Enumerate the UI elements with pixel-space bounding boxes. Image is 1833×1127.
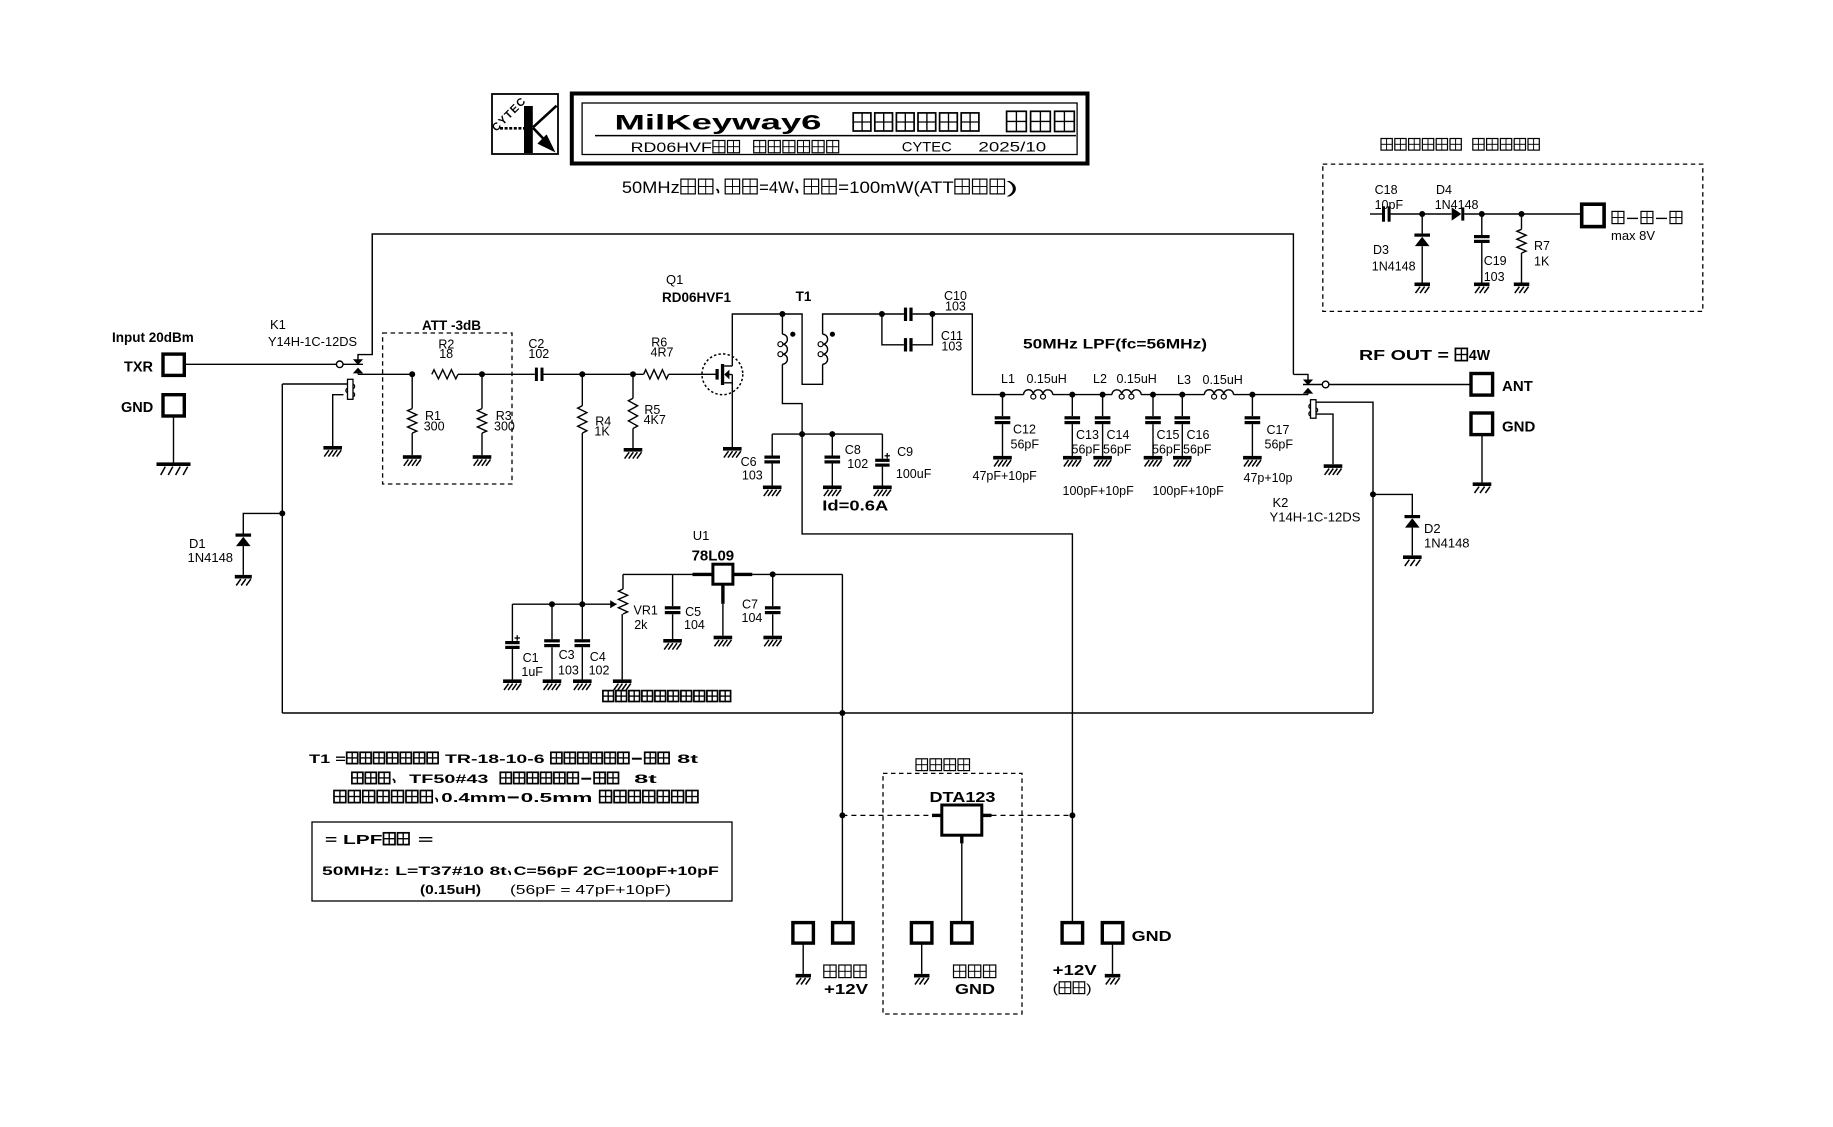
wire R6 to Q1 gate [669,373,716,375]
svg-text:D2: D2 [1424,521,1441,536]
svg-text:K1: K1 [270,317,286,332]
wire U1 ground [722,604,724,636]
note T1 line3 [334,790,698,805]
wire C5 to ground [672,614,674,639]
wire rail to pad2 [841,713,843,923]
pad ANT [1471,374,1493,396]
wire C1 top [511,604,513,641]
potentiometer VR1 [610,589,627,614]
capacitor C5 [665,606,681,614]
capacitor C18 [1382,206,1391,221]
svg-text:C13: C13 [1076,428,1099,442]
svg-text:+12V: +12V [1053,963,1097,979]
node D3 junction [1419,211,1425,217]
svg-text:1uF: 1uF [521,665,543,679]
svg-text:C=56pF 2C=100pF+10pF: C=56pF 2C=100pF+10pF [514,864,720,878]
note T1 line2 [352,772,657,786]
svg-text:2k: 2k [634,618,648,632]
svg-text:GND: GND [1502,419,1536,436]
capacitor C19 [1474,235,1490,243]
svg-text:0.15uH: 0.15uH [1203,373,1243,387]
svg-text:GND: GND [1132,929,1172,945]
node C16 [1179,392,1185,398]
ground C1 [503,679,522,690]
meter pad [1582,204,1604,226]
wire C7 top [772,574,774,606]
capacitor C8 [825,456,841,464]
svg-text:300: 300 [424,420,445,434]
svg-text:max 8V: max 8V [1611,228,1655,243]
svg-text:TF50#43: TF50#43 [398,772,499,786]
capacitor C11 [904,338,913,351]
wire DTA collector dashed [992,814,1073,816]
svg-text:=100mW(ATT: =100mW(ATT [838,179,954,197]
wire K2 coil to rail [1372,494,1374,713]
wire C9 to ground [881,467,883,486]
label gaibu zousetsu [916,759,970,771]
inductor L1 [1024,390,1053,399]
diode D4 [1452,207,1465,220]
wire decoupling bus [772,433,882,435]
node bus T1 [799,431,805,437]
ground K1 coil [323,446,342,457]
svg-text:56pF: 56pF [1103,442,1132,456]
IC U1 78L09 [693,564,753,604]
svg-text:C7: C7 [742,598,758,612]
svg-text:=4W: =4W [759,179,794,197]
wire R2 to R3 node [458,373,535,375]
node C17 [1249,392,1255,398]
svg-text:C6: C6 [741,455,757,469]
svg-text:100pF+10pF: 100pF+10pF [1153,484,1225,498]
wire R1 to ground [411,433,413,455]
svg-text:L3: L3 [1177,373,1191,387]
wire C11 branch left [882,314,904,345]
wire C12 to L1 [1003,394,1024,396]
node C3 top [549,601,555,607]
wire K1 coil pin2 [333,395,344,446]
svg-text:103: 103 [945,300,966,314]
svg-text:C19: C19 [1484,254,1507,268]
resistor R5 [628,398,637,428]
node D2 branch [1370,491,1376,497]
node DTA base branch [839,812,845,818]
wire C19 top [1481,214,1483,235]
wire VR1 bottom to ground [621,614,623,679]
ATT dashed box [383,333,512,484]
wire R4 to VR1 wiper [581,433,583,604]
node C15 [1150,392,1156,398]
label RF OUT [1359,348,1490,364]
wire D1 to ground [242,546,244,575]
ground output GND [1473,482,1492,493]
subtitle row RD06HVF [631,139,839,155]
svg-text:1K: 1K [594,424,610,438]
wire C6 to ground [771,464,773,486]
svg-text:104: 104 [742,611,763,625]
node R4 top [579,371,585,377]
label P5 line2 [1053,981,1092,996]
capacitor C2 [535,368,544,381]
wire L3 to K2 [1234,394,1309,396]
diode D1 [236,534,252,547]
svg-text:4W: 4W [1469,348,1491,364]
svg-text:56pF: 56pF [1152,442,1181,456]
relay K1 lower contact [353,368,363,375]
capacitor C12 [995,416,1011,424]
svg-text:1K: 1K [1534,255,1550,269]
svg-text:TR-18-10-6: TR-18-10-6 [440,752,550,766]
wire DTA emitter [961,843,963,922]
wire C9 top [881,434,883,459]
ground D3 [1415,283,1431,294]
label P4 line1 [954,965,996,978]
ground C8 [823,486,842,497]
wire Q1 drain [732,314,782,355]
wire C17 top [1251,395,1253,417]
wire C4 to ground [581,647,583,679]
wire meter input [1370,213,1382,215]
pad P3 [911,923,932,944]
svg-text:TXR: TXR [124,360,154,376]
node D1 branch [279,510,285,516]
ground R1 [403,455,422,466]
svg-text:MilKeyway6: MilKeyway6 [615,112,822,135]
ground C4 [573,679,592,690]
svg-text:18: 18 [439,347,453,361]
capacitor C3 [544,639,560,647]
label P2 line1 [824,965,866,978]
svg-text:C8: C8 [845,443,861,457]
title underline [595,135,1076,137]
svg-text:CYTEC: CYTEC [902,139,952,155]
svg-text:C14: C14 [1107,428,1130,442]
svg-text:10pF: 10pF [1375,198,1404,212]
svg-text:K2: K2 [1273,495,1289,510]
ground D1 [235,575,252,586]
svg-text:U1: U1 [693,528,710,543]
wire P3 to ground [921,944,923,974]
wire R3 to ground [481,433,483,455]
wire C12 top [1002,395,1004,417]
capacitor C1 plus [515,635,521,641]
ground P6 [1105,974,1121,985]
svg-text:GND: GND [955,982,995,998]
relay K1 coil [346,379,355,399]
svg-text:103: 103 [742,469,763,483]
svg-text:47p+10p: 47p+10p [1244,471,1293,485]
svg-text:C9: C9 [897,445,913,459]
svg-text:0.4mm: 0.4mm [441,790,506,805]
transistor Q1 [702,354,743,395]
wire L1 to C13 [1053,394,1112,396]
wire C2 to R6 [544,373,644,375]
svg-text:2025/10: 2025/10 [978,139,1046,155]
relay K2 lower contact [1303,388,1313,395]
wire C6 top [771,434,773,455]
svg-text:Input 20dBm: Input 20dBm [112,330,194,345]
svg-text:L2: L2 [1093,372,1107,386]
transistor DTA123 [932,805,992,843]
wire C8 top [831,434,833,455]
node C4 top [579,601,585,607]
svg-text:RD06HVF: RD06HVF [631,139,712,155]
svg-text:): ) [1086,981,1092,996]
svg-text:C17: C17 [1267,423,1290,437]
ground D2 [1403,555,1422,566]
logo CYTEC [490,94,558,154]
svg-text:100pF+10pF: 100pF+10pF [1063,484,1135,498]
resistor R4 [578,406,587,433]
wire C16 to ground [1181,424,1183,456]
wire C13 top [1071,395,1073,417]
svg-text:102: 102 [528,347,549,361]
external dashed box [883,773,1022,1014]
ground C16 [1173,456,1192,467]
wire C12 to ground [1002,424,1004,456]
svg-text:104: 104 [684,618,705,632]
capacitor C9 plus [885,453,891,459]
node C19 junction [1479,211,1485,217]
svg-text:56pF: 56pF [1072,442,1101,456]
wire GND pad to ground [173,416,175,462]
svg-text:0.15uH: 0.15uH [1027,372,1067,386]
wire C17 to ground [1251,424,1253,456]
svg-text:300: 300 [494,420,515,434]
wire C15 to ground [1152,424,1154,456]
svg-text:DTA123: DTA123 [930,789,996,806]
relay K2 pole [1322,381,1329,388]
svg-text:GND: GND [121,400,153,416]
capacitor C9 [875,459,889,467]
ground P3 [914,974,930,985]
node DTA collector branch [1069,812,1075,818]
ground R7 [1514,283,1530,294]
svg-text:56pF: 56pF [1265,438,1294,452]
capacitor C4 [575,639,591,647]
wire R5 top [632,374,634,398]
svg-text:C5: C5 [685,605,701,619]
resistor R1 [408,409,417,434]
title box [572,94,1088,164]
inductor L3 [1204,390,1233,399]
node R5 top [630,371,636,377]
transformer T1 secondary winding [818,334,828,364]
ground C19 [1474,283,1490,294]
wire C3 to ground [551,647,553,679]
relay K1 upper contact [353,234,372,365]
svg-text:VR1: VR1 [634,604,658,618]
wire TXR-ANT bypass (top) [372,234,1293,374]
svg-text:=: = [411,832,435,847]
title text riniaanpu [853,113,979,131]
wire U1 out [752,573,842,575]
svg-text:103: 103 [558,664,579,678]
wire bottom rail [282,712,1373,714]
wire K1 pole to contacts [343,363,363,365]
wire K2 coil pin1 [1316,402,1373,494]
capacitor C14 [1095,416,1111,424]
svg-text:T1: T1 [796,289,812,304]
wire R3 top [481,374,483,408]
svg-text:102: 102 [847,457,868,471]
ground VR1 [613,679,632,690]
svg-text:103: 103 [941,340,962,354]
transformer T1 primary winding [778,334,788,364]
svg-text:102: 102 [589,664,610,678]
svg-text:C18: C18 [1375,183,1398,197]
svg-text:103: 103 [1484,270,1505,284]
label idling [603,691,731,702]
label meter-he [1612,211,1682,223]
svg-text:50MHz: L=T37#10 8t: 50MHz: L=T37#10 8t [322,864,507,878]
wire C18 to D4 [1391,213,1452,215]
diode D3 [1414,234,1430,247]
pad GND input [163,395,184,416]
svg-text:50MHz: 50MHz [622,179,680,197]
pad P1 [793,923,814,944]
wire U1 out down [841,574,843,713]
ground C5 [663,639,682,650]
svg-text:D3: D3 [1373,243,1389,257]
wire R4 top [581,374,583,406]
wire D2 to ground [1411,528,1413,556]
wire T1 secondary top lead [823,314,882,334]
capacitor C6 [764,456,780,464]
wire VR1 top [622,574,624,589]
node R1 top [409,371,415,377]
node T1 primary top [779,311,785,317]
wire C7 to ground [772,614,774,636]
node bus C8 [829,431,835,437]
svg-text:4K7: 4K7 [644,413,666,427]
wire VR1 to U1 [623,573,693,575]
wire T1 primary bottom [782,364,802,434]
wire C13 to ground [1071,424,1073,456]
svg-text:ATT -3dB: ATT -3dB [422,318,481,333]
diode D2 [1405,515,1421,528]
wire D4 to meter pad [1464,213,1581,215]
meter circuit dashed box [1323,164,1703,311]
ground C15 [1144,456,1163,467]
svg-text:RF OUT =: RF OUT = [1359,348,1454,364]
node C14 [1100,392,1106,398]
node C13 [1069,392,1075,398]
svg-text:D1: D1 [189,536,206,551]
pad P2 [833,923,854,944]
svg-text:C15: C15 [1157,428,1180,442]
wire C14 to ground [1102,424,1104,456]
node C7 top [770,571,776,577]
svg-text:C4: C4 [590,650,606,664]
svg-text:L1: L1 [1001,372,1015,386]
wire C1 to ground [511,649,513,679]
svg-text:C3: C3 [559,648,575,662]
ground input GND [157,462,191,475]
wire C3 top [551,604,553,639]
svg-text:47pF+10pF: 47pF+10pF [973,469,1038,483]
svg-text:8t: 8t [620,772,657,786]
ground Q1 source [723,447,742,458]
wire Q1 source [731,394,733,447]
wire C19 to ground [1481,243,1483,283]
relay K1 pole [336,361,343,368]
ground C9 [873,486,892,497]
svg-text:+12V: +12V [824,982,868,998]
ground C7 [763,636,782,647]
ground P1 [796,974,812,985]
title text kairozu [1007,111,1075,131]
ground C17 [1243,456,1262,467]
svg-text:T1 =: T1 = [309,752,346,766]
svg-text:Y14H-1C-12DS: Y14H-1C-12DS [268,334,357,349]
resistor R3 [477,409,486,434]
pad P5 [1062,923,1083,944]
relay K2 upper contact [1293,374,1313,385]
wire C10 right [913,313,933,315]
wire C14 top [1102,395,1104,417]
pad TXR [163,354,184,375]
wire R1 top [411,374,413,408]
ground U1 [714,636,733,647]
svg-text:(: ( [1053,981,1059,996]
wire left rail [281,384,283,713]
wire C5 top [672,574,674,606]
svg-text:Id=0.6A: Id=0.6A [822,499,889,515]
ground C3 [543,679,562,690]
caption 50MHz line [622,179,1018,197]
pad P4 [952,923,973,944]
capacitor C10 [904,308,913,321]
svg-text:ANT: ANT [1502,378,1533,395]
wire GND pad to ground [1481,435,1483,482]
svg-text:(0.15uH): (0.15uH) [420,882,481,897]
svg-text:78L09: 78L09 [692,548,735,565]
wire K2 pole to contacts [1303,384,1322,386]
capacitor C16 [1175,416,1191,424]
wire TXR to K1 [185,363,337,365]
svg-text:R7: R7 [1534,239,1550,253]
wire to D2 [1373,494,1412,515]
svg-text:Y14H-1C-12DS: Y14H-1C-12DS [1270,510,1361,525]
phase dot T1 primary [790,332,795,337]
wire R4/VR1 wiper bus [512,603,616,605]
ground K2 coil [1324,464,1343,475]
pad P6 [1102,923,1123,944]
ground R3 [473,455,492,466]
wire C15 top [1152,395,1154,417]
pad GND output [1471,413,1493,435]
svg-text:= LPF: = LPF [325,832,383,847]
relay K2 coil [1309,400,1318,419]
svg-text:0.5mm: 0.5mm [521,790,599,805]
svg-text:C16: C16 [1187,428,1210,442]
ground C14 [1093,456,1112,467]
svg-text:1N4148: 1N4148 [188,550,234,565]
node R7 junction [1519,211,1525,217]
wire C8 to ground [831,464,833,486]
node rail U1 branch [839,710,845,716]
wire D3 to ground [1421,246,1423,282]
svg-text:Q1: Q1 [666,272,683,287]
resistor R7 [1517,229,1526,253]
LPF note title [325,832,434,847]
wire R7 to ground [1521,253,1523,282]
wire P1 to ground [802,944,804,974]
ground C12 [993,456,1012,467]
wire R7 top [1521,214,1523,229]
meter circuit title [1381,139,1539,153]
